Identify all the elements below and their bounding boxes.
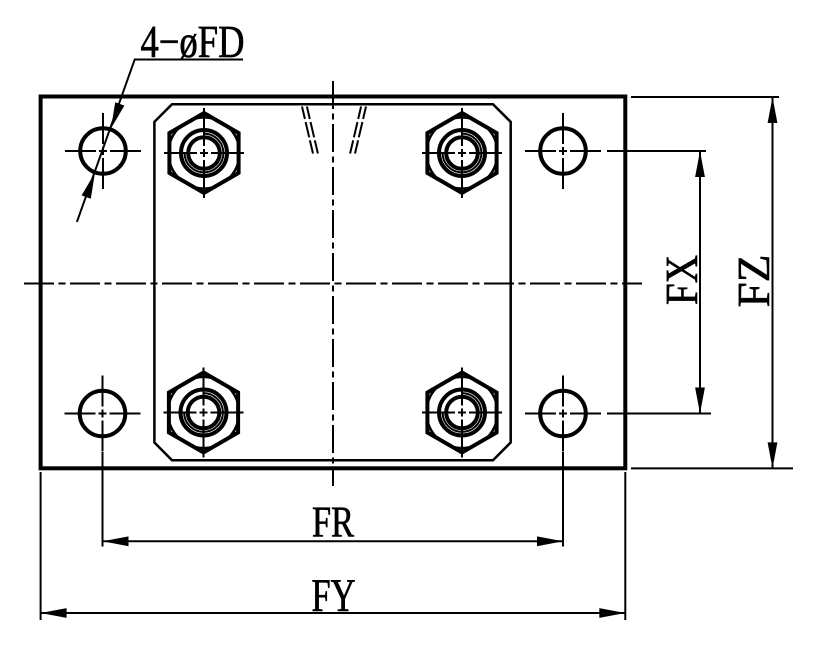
FY extension line left	[40, 472, 42, 620]
FR extension line right	[562, 452, 564, 547]
FZ extension line bottom	[631, 467, 793, 469]
mounting face (chamfered rectangle)	[154, 104, 510, 460]
label FR	[313, 508, 354, 537]
hole FD top-right	[540, 128, 586, 174]
leader line for 4-oFD	[77, 60, 243, 222]
plate outline	[41, 97, 626, 469]
centerline cross of hole top-right	[525, 150, 601, 152]
label FX	[667, 256, 697, 304]
centerline cross of hole bottom-right	[525, 413, 601, 415]
hex port top-right	[427, 113, 496, 193]
FX extension line top	[607, 150, 706, 152]
centerline cross of hex port top-right	[422, 152, 502, 154]
FY dimension line	[41, 612, 626, 614]
horizontal main centerline	[24, 283, 642, 285]
FY extension line right	[624, 472, 626, 620]
leader arrow lower	[82, 173, 95, 199]
FZ dimension line	[772, 97, 774, 468]
hex port bottom-left	[169, 373, 238, 453]
centerline cross of hole top-left	[65, 150, 141, 152]
FX extension line bottom	[607, 413, 711, 415]
label FY	[312, 580, 354, 611]
centerline cross of hex port bottom-right	[422, 412, 502, 414]
FX dimension line	[699, 151, 701, 414]
FR extension line left	[102, 452, 104, 547]
FR dimension line	[103, 540, 564, 542]
centerline cross of hex port bottom-left	[164, 412, 244, 414]
label 4-oFD	[141, 27, 243, 59]
left tick pair	[302, 107, 318, 154]
hole FD bottom-right	[540, 391, 586, 437]
hole FD top-left	[80, 128, 126, 174]
centerline cross of hex port top-left	[164, 152, 244, 154]
centerline cross of hole bottom-left	[65, 413, 141, 415]
hole FD bottom-left	[80, 391, 126, 437]
right tick pair	[350, 107, 366, 154]
FZ extension line top	[631, 96, 779, 98]
hex port bottom-right	[427, 373, 496, 453]
label FZ	[739, 257, 769, 306]
leader arrow upper	[111, 102, 124, 128]
hex port top-left	[169, 113, 238, 193]
vertical main centerline	[332, 81, 334, 486]
